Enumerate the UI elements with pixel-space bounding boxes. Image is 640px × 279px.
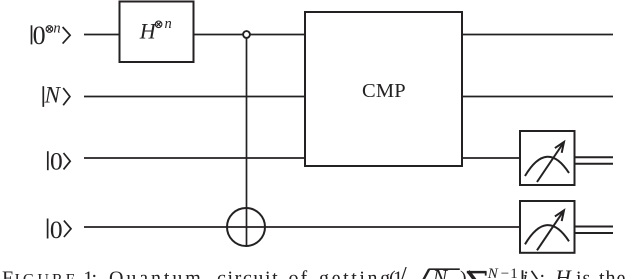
svg-text:;: ; bbox=[540, 268, 546, 279]
svg-text:0: 0 bbox=[33, 21, 46, 50]
svg-text:1: 1 bbox=[510, 266, 518, 279]
svg-text:getting: getting bbox=[319, 268, 393, 279]
svg-text:0: 0 bbox=[50, 215, 63, 244]
svg-text:of: of bbox=[289, 268, 310, 279]
svg-text:IGURE: IGURE bbox=[15, 272, 79, 279]
svg-text:the: the bbox=[599, 268, 626, 279]
svg-text:circuit: circuit bbox=[217, 268, 279, 279]
svg-text:N: N bbox=[44, 83, 62, 108]
svg-text:/: / bbox=[400, 262, 408, 279]
svg-text:i: i bbox=[522, 268, 528, 279]
svg-text:H: H bbox=[139, 19, 157, 44]
svg-text:n: n bbox=[165, 16, 172, 32]
svg-text:Quantum: Quantum bbox=[109, 268, 204, 279]
svg-text:is: is bbox=[576, 268, 591, 279]
svg-text::: : bbox=[92, 268, 98, 279]
svg-text:): ) bbox=[460, 268, 467, 279]
svg-text:H: H bbox=[554, 266, 572, 279]
svg-text:−: − bbox=[501, 266, 509, 279]
svg-text:F: F bbox=[2, 268, 13, 279]
svg-text:CMP: CMP bbox=[362, 80, 406, 102]
svg-text:n: n bbox=[53, 20, 60, 36]
svg-text:N: N bbox=[432, 265, 449, 279]
svg-text:N: N bbox=[487, 266, 499, 279]
svg-text:0: 0 bbox=[50, 147, 63, 176]
